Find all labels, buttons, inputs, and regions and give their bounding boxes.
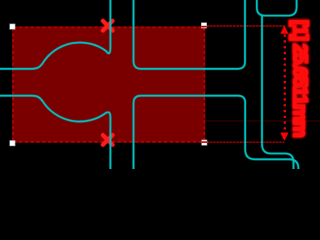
svg-text:[1] 25.6511mm: [1] 25.6511mm [288, 20, 310, 137]
